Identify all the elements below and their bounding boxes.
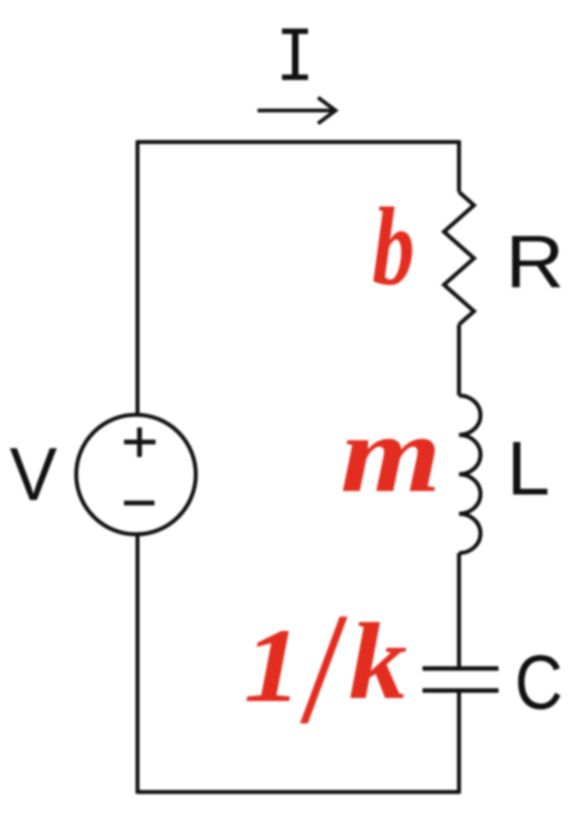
wire right between inductor and capacitor (457, 553, 461, 669)
capacitor C bottom plate (423, 688, 499, 692)
svg-text:V: V (10, 432, 58, 516)
svg-text:m: m (340, 394, 441, 516)
label I (current) drawn with serifs (282, 29, 308, 81)
svg-text:L: L (507, 426, 550, 511)
svg-text:C: C (515, 641, 563, 727)
current arrow (258, 109, 333, 113)
wire right below capacitor (457, 691, 461, 794)
svg-text:k: k (349, 603, 407, 723)
plus sign inside source (124, 428, 156, 458)
wire left vertical lower (136, 534, 140, 794)
voltage source V circle (76, 415, 196, 535)
resistor R zigzag (444, 192, 474, 325)
svg-text:1: 1 (244, 607, 302, 724)
capacitor C top plate (423, 666, 499, 670)
wire top horizontal (138, 140, 460, 144)
svg-text:b: b (372, 186, 414, 309)
wire left vertical upper (136, 140, 140, 415)
wire right vertical above resistor (457, 140, 461, 192)
inductor L coils (459, 396, 481, 554)
svg-text:R: R (506, 219, 565, 303)
wire bottom horizontal (138, 790, 460, 794)
minus sign inside source (124, 501, 155, 506)
svg-text:/: / (299, 580, 348, 757)
wire right between resistor and inductor (457, 325, 461, 396)
